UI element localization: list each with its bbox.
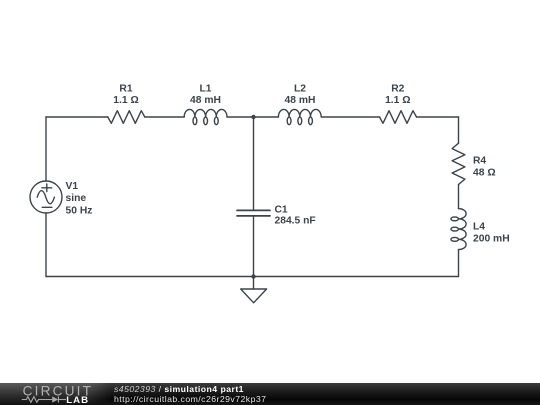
svg-text:L1: L1 [199,84,211,95]
svg-text:L4: L4 [473,222,485,233]
svg-text:48 mH: 48 mH [285,95,316,106]
svg-text:R2: R2 [391,84,404,95]
svg-text:50 Hz: 50 Hz [66,205,93,216]
svg-text:C1: C1 [275,204,288,215]
svg-text:R4: R4 [473,156,486,167]
svg-text:V1: V1 [66,181,79,192]
svg-text:48 mH: 48 mH [190,95,221,106]
svg-text:L2: L2 [294,84,306,95]
svg-text:48 Ω: 48 Ω [473,168,496,179]
svg-text:LAB: LAB [66,395,89,405]
svg-text:1.1 Ω: 1.1 Ω [113,95,138,106]
svg-text:1.1 Ω: 1.1 Ω [385,95,410,106]
svg-text:200 mH: 200 mH [473,233,510,244]
svg-text:sine: sine [66,193,87,204]
svg-text:R1: R1 [119,84,132,95]
svg-text:284.5 nF: 284.5 nF [275,215,316,226]
